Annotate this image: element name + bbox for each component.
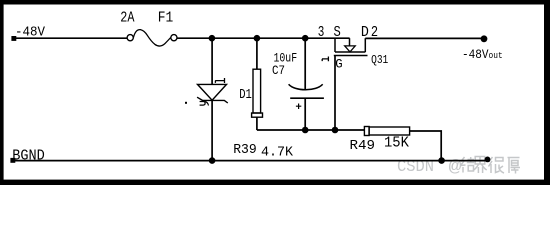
node junction BGND at zener bbox=[209, 157, 216, 164]
wire R49 right lead bbox=[410, 131, 442, 161]
node junction mid rail at gate bbox=[332, 127, 339, 134]
svg-text:R39: R39 bbox=[233, 142, 257, 158]
C7 flat plate bbox=[290, 97, 324, 99]
svg-text:D: D bbox=[361, 23, 369, 41]
C7 curved plate bbox=[289, 84, 323, 90]
svg-text:BGND: BGND bbox=[12, 149, 45, 165]
wire BGND rail bbox=[15, 160, 490, 162]
capacitor C7 bbox=[289, 38, 324, 130]
pin 1 (rotated) of D1 bbox=[215, 78, 224, 83]
wire drain rise bbox=[364, 38, 366, 52]
svg-text:-48V: -48V bbox=[462, 47, 489, 62]
svg-text:15K: 15K bbox=[384, 135, 409, 151]
zener diode D1 bbox=[197, 38, 228, 160]
svg-text:R49: R49 bbox=[350, 138, 376, 154]
node junction BGND at R49 bbox=[438, 157, 445, 164]
svg-text:out: out bbox=[489, 50, 503, 61]
fuse F1 bbox=[127, 30, 177, 46]
wire C7 bottom lead bbox=[304, 98, 306, 130]
svg-text:G: G bbox=[335, 56, 342, 71]
svg-text:2A: 2A bbox=[120, 10, 134, 27]
svg-text:4.7K: 4.7K bbox=[261, 146, 294, 161]
wire gate drop bbox=[334, 56, 336, 131]
wire C7 top lead bbox=[304, 38, 306, 90]
界 bbox=[473, 157, 487, 174]
svg-text:S: S bbox=[334, 23, 341, 41]
body line bbox=[335, 51, 365, 53]
pin 2 (rotated) of D1 bbox=[200, 102, 209, 106]
wire zener bottom lead bbox=[211, 100, 213, 160]
svg-text:F1: F1 bbox=[158, 10, 174, 27]
node junction top rail at C7 bbox=[302, 35, 309, 42]
svg-text:C7: C7 bbox=[272, 64, 285, 78]
bulk arrow triangle bbox=[345, 46, 356, 52]
resistor R49 bbox=[364, 127, 441, 161]
node junction top rail at zener bbox=[209, 35, 216, 42]
terminal -48Vout bbox=[481, 35, 488, 42]
wire mid rail bbox=[257, 129, 365, 131]
watermark CSDN @结界很厚 bbox=[397, 157, 520, 178]
terminal BGND bbox=[10, 158, 15, 163]
很 bbox=[489, 157, 505, 173]
wire R39 top lead bbox=[256, 38, 258, 69]
wire top rail left bbox=[15, 37, 127, 39]
svg-text:3: 3 bbox=[318, 23, 325, 41]
svg-text:2: 2 bbox=[371, 23, 378, 41]
gate line bbox=[334, 55, 368, 57]
node junction mid rail at C7 bbox=[302, 127, 309, 134]
C7 plus sign bbox=[296, 104, 301, 110]
wire rail end drop to bulk arrow bbox=[349, 38, 351, 46]
wire R39 bottom lead bbox=[256, 117, 258, 130]
zener triangle bbox=[198, 84, 227, 100]
wire top rail fuse to mosfet S bbox=[177, 37, 350, 39]
resistor R39 bbox=[252, 38, 263, 130]
svg-text:-48V: -48V bbox=[15, 25, 46, 41]
wire drain rail to -48Vout bbox=[365, 37, 483, 39]
node BGND rail end bbox=[485, 157, 491, 163]
terminal -48V bbox=[11, 36, 16, 41]
结 bbox=[461, 157, 475, 173]
node junction top rail at R39 bbox=[254, 35, 261, 42]
mosfet Q31 bbox=[334, 38, 368, 130]
zener cathode bar bbox=[197, 97, 228, 103]
svg-text:Q31: Q31 bbox=[371, 54, 388, 67]
wire zener top lead bbox=[211, 38, 213, 84]
wire source drop bbox=[334, 38, 336, 52]
厚 bbox=[508, 158, 521, 174]
svg-text:D1: D1 bbox=[239, 87, 252, 103]
pin 1 (rotated) of Q31 gate bbox=[322, 57, 328, 62]
